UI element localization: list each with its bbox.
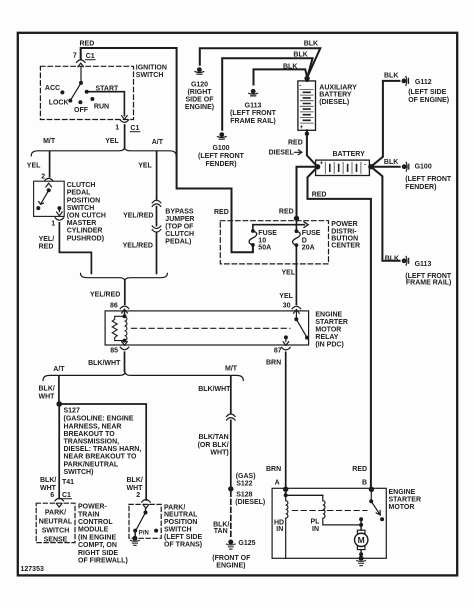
svg-text:RED: RED	[288, 139, 303, 146]
svg-text:RED: RED	[312, 191, 327, 198]
ground G100 right	[402, 164, 407, 169]
svg-text:BLK/WHT: BLK/WHT	[198, 386, 231, 393]
svg-text:YEL: YEL	[279, 293, 293, 300]
wire bypass jumper	[156, 207, 158, 226]
svg-text:ENGINE): ENGINE)	[185, 104, 214, 111]
svg-text:M/T: M/T	[43, 138, 56, 145]
wire RED ignition to fuse 10	[81, 48, 253, 252]
engine starter motor box	[272, 488, 386, 558]
wire PDC bus with continuation arrow	[253, 218, 305, 230]
wire RED battery to starter B	[308, 167, 371, 490]
svg-text:OF ENGINE): OF ENGINE)	[408, 97, 449, 104]
svg-text:SWITCH: SWITCH	[67, 205, 95, 212]
starter motor M	[359, 517, 363, 527]
svg-text:A/T: A/T	[152, 139, 164, 146]
svg-text:+: +	[300, 125, 304, 131]
splice S127	[56, 401, 62, 407]
wire BLK/TAN diesel dashed to G125	[230, 492, 232, 540]
svg-text:WHT: WHT	[39, 393, 56, 400]
svg-text:FRAME RAIL): FRAME RAIL)	[230, 118, 276, 125]
connector PCM C1 pin 6	[55, 498, 64, 507]
clutch switch pin 1 exit	[55, 208, 64, 220]
svg-text:TAN: TAN	[214, 528, 228, 535]
wire BLK/WHT S127 to park/neutral switch	[59, 404, 146, 500]
svg-text:RELAY: RELAY	[315, 334, 338, 341]
svg-text:IGNITION: IGNITION	[136, 64, 167, 71]
svg-text:M/T: M/T	[225, 366, 238, 373]
power distribution center dashed box	[220, 221, 328, 264]
wire BLK battery negative to G100	[371, 166, 400, 168]
svg-text:(IN PDC): (IN PDC)	[315, 342, 343, 349]
wire coil feed	[286, 494, 323, 496]
connector inline (M/T branch)	[227, 414, 236, 420]
svg-text:(DIESEL): (DIESEL)	[235, 499, 265, 506]
svg-text:1: 1	[51, 221, 55, 228]
svg-text:(FRONT OF: (FRONT OF	[212, 555, 251, 562]
relay mechanical dashed link	[132, 327, 291, 329]
svg-text:YEL: YEL	[282, 269, 296, 276]
svg-text:PARK/: PARK/	[164, 504, 185, 511]
svg-text:P/N: P/N	[139, 530, 149, 536]
svg-text:OF FIREWALL): OF FIREWALL)	[78, 558, 128, 565]
svg-text:1: 1	[115, 125, 119, 132]
svg-text:G100: G100	[212, 145, 229, 152]
svg-text:SWITCH: SWITCH	[136, 72, 164, 79]
node split M/T A/T (brace)	[31, 147, 176, 156]
svg-text:RED: RED	[80, 40, 95, 47]
wire YEL/RED to relay 86	[124, 281, 126, 304]
svg-text:ENGINE: ENGINE	[315, 312, 342, 319]
svg-text:IN: IN	[276, 526, 283, 533]
connector park/neutral switch pin 2	[142, 500, 151, 509]
svg-text:BLK/: BLK/	[127, 477, 143, 484]
svg-text:BLK: BLK	[304, 40, 318, 47]
ground (park/neutral switch)	[132, 536, 137, 541]
svg-text:(GASOLINE: ENGINE: (GASOLINE: ENGINE	[64, 416, 134, 423]
svg-text:D: D	[302, 237, 307, 244]
svg-text:(LEFT SIDE: (LEFT SIDE	[164, 534, 202, 541]
svg-text:(LEFT FRONT: (LEFT FRONT	[405, 176, 452, 183]
wire YEL M/T branch	[49, 152, 51, 177]
svg-text:RIGHT SIDE: RIGHT SIDE	[78, 550, 118, 557]
svg-text:(ON CUTCH: (ON CUTCH	[67, 213, 106, 220]
svg-text:CLUTCH: CLUTCH	[67, 182, 96, 189]
svg-text:30: 30	[283, 303, 291, 310]
svg-text:CONTROL: CONTROL	[78, 519, 113, 526]
svg-text:BREAKOUT TO: BREAKOUT TO	[64, 431, 116, 438]
wire YEL/RED clutch to merge	[59, 223, 91, 274]
svg-text:BATTERY: BATTERY	[319, 92, 352, 99]
svg-text:WHT: WHT	[127, 485, 144, 492]
svg-text:RUN: RUN	[94, 103, 109, 110]
svg-text:BLK: BLK	[293, 52, 307, 59]
svg-text:RED: RED	[39, 243, 54, 250]
node battery negative terminal	[368, 164, 373, 169]
PCM dashed box (park/neutral switch sense)	[36, 503, 75, 542]
node aux battery top junction	[304, 76, 309, 81]
svg-text:DIESEL: DIESEL	[269, 150, 295, 157]
svg-text:BLK/: BLK/	[40, 477, 56, 484]
wire P/N contact to ground	[134, 531, 136, 539]
svg-text:G100: G100	[415, 164, 432, 171]
node starter terminal A	[283, 487, 288, 492]
battery AUX (diesel)	[306, 78, 308, 81]
node merge brace (M/T + A/T)	[81, 273, 168, 281]
svg-text:AUXILIARY: AUXILIARY	[319, 84, 357, 91]
svg-text:NEAR BREAKOUT TO: NEAR BREAKOUT TO	[64, 454, 138, 461]
svg-text:YEL/RED: YEL/RED	[123, 242, 153, 249]
svg-text:MASTER: MASTER	[67, 220, 97, 227]
svg-text:SWITCH): SWITCH)	[64, 469, 94, 476]
connector bypass jumper lower	[152, 226, 161, 232]
svg-text:DISTRI-: DISTRI-	[331, 228, 357, 235]
svg-text:86: 86	[110, 303, 118, 310]
starter switch contacts	[369, 487, 374, 492]
ground G112	[402, 79, 407, 84]
svg-text:(IN ENGINE: (IN ENGINE	[78, 534, 116, 541]
svg-text:CENTER: CENTER	[331, 243, 360, 250]
svg-text:BLK: BLK	[385, 255, 399, 262]
wire BLK/TAN to splice	[230, 420, 232, 487]
svg-text:NEUTRAL: NEUTRAL	[39, 519, 73, 526]
wire BLK top rail to aux battery	[200, 48, 320, 77]
clutch switch contacts	[39, 190, 49, 204]
svg-text:7: 7	[73, 53, 77, 60]
svg-text:SENSE: SENSE	[44, 537, 68, 544]
svg-text:2: 2	[136, 492, 140, 499]
svg-text:S122: S122	[236, 481, 252, 488]
svg-text:TRAIN: TRAIN	[78, 511, 99, 518]
svg-text:(LEFT FRONT: (LEFT FRONT	[198, 153, 245, 160]
fuse D 20A	[295, 229, 299, 247]
svg-text:POWER: POWER	[331, 221, 357, 228]
ignition switch S1 dashed box	[40, 66, 133, 119]
ground (starter motor case)	[357, 561, 366, 566]
ground G113 left	[251, 89, 256, 94]
svg-text:POWER-: POWER-	[78, 504, 107, 511]
svg-text:PARK/NEUTRAL: PARK/NEUTRAL	[64, 461, 119, 468]
svg-text:STARTER: STARTER	[315, 319, 348, 326]
wire BRN relay 87 to starter A	[285, 352, 287, 495]
wire YEL fuse D to relay 30	[295, 246, 297, 305]
wire RED aux battery to battery positive	[307, 130, 318, 167]
svg-text:87: 87	[274, 348, 282, 355]
svg-text:(GAS): (GAS)	[236, 473, 256, 480]
svg-text:S128: S128	[236, 491, 252, 498]
svg-text:RED: RED	[214, 209, 229, 216]
wire BLK middle rail to aux battery	[222, 58, 312, 130]
svg-text:PEDAL: PEDAL	[67, 190, 91, 197]
svg-text:LOCK: LOCK	[49, 99, 69, 106]
svg-text:PEDAL): PEDAL)	[165, 238, 191, 245]
ground G125	[228, 540, 233, 545]
starter solenoid dashed link	[292, 510, 367, 512]
connector C1 pin 1 (ignition output)	[120, 116, 129, 123]
svg-text:(LEFT FRONT: (LEFT FRONT	[230, 110, 277, 117]
svg-text:BATTERY: BATTERY	[333, 151, 366, 158]
svg-text:BLK/TAN: BLK/TAN	[198, 434, 228, 441]
svg-text:STARTER: STARTER	[389, 496, 422, 503]
svg-text:MODULE: MODULE	[78, 527, 109, 534]
svg-text:BLK: BLK	[384, 73, 398, 80]
svg-text:BRN: BRN	[266, 360, 281, 367]
svg-text:10: 10	[258, 237, 266, 244]
svg-text:POSITION: POSITION	[164, 519, 197, 526]
svg-text:JUMPER: JUMPER	[165, 216, 194, 223]
svg-text:T41: T41	[62, 479, 74, 486]
svg-text:FRAME RAIL): FRAME RAIL)	[406, 280, 452, 287]
node HD/PL coil junction	[284, 493, 288, 497]
svg-text:FENDER): FENDER)	[405, 184, 436, 191]
svg-text:YEL/: YEL/	[39, 236, 55, 243]
svg-text:SWITCH: SWITCH	[164, 527, 192, 534]
wire BLK battery negative to G112	[371, 81, 400, 167]
svg-text:COMPT, ON: COMPT, ON	[78, 542, 117, 549]
wire BLK/WHT A/T branch to S127	[58, 376, 60, 401]
svg-text:A/T: A/T	[53, 366, 65, 373]
svg-text:2: 2	[41, 174, 45, 181]
svg-text:G120: G120	[191, 81, 208, 88]
svg-text:YEL: YEL	[27, 163, 41, 170]
svg-text:DIESEL: TRANS HARN,: DIESEL: TRANS HARN,	[64, 446, 142, 453]
svg-text:SWITCH: SWITCH	[42, 528, 70, 535]
svg-text:A: A	[275, 480, 280, 487]
wire YEL/RED to merge	[156, 233, 158, 273]
svg-text:PUSHROD): PUSHROD)	[67, 235, 104, 242]
svg-text:RED: RED	[279, 209, 294, 216]
connector clutch switch pin 2	[44, 178, 53, 187]
node battery positive terminal	[315, 164, 320, 169]
node PDC feed junction	[294, 216, 299, 221]
relay switch contacts	[295, 311, 297, 319]
svg-text:MOTOR: MOTOR	[315, 327, 341, 334]
svg-text:C1: C1	[62, 492, 71, 499]
splice S122 / S128	[228, 486, 233, 491]
svg-text:G113: G113	[415, 261, 432, 268]
svg-text:HARNESS, NEAR: HARNESS, NEAR	[64, 423, 122, 430]
park/neutral switch contacts	[136, 509, 145, 530]
svg-text:PARK/: PARK/	[45, 510, 66, 517]
svg-text:BYPASS: BYPASS	[165, 208, 194, 215]
svg-text:B: B	[362, 480, 367, 487]
svg-text:G112: G112	[415, 79, 432, 86]
wire BLK/WHT S127 to PCM	[58, 404, 60, 499]
svg-text:YEL/RED: YEL/RED	[123, 213, 153, 220]
node aux battery bottom	[305, 132, 309, 136]
park/neutral position switch dashed box	[129, 504, 161, 538]
svg-text:BLK: BLK	[384, 159, 398, 166]
svg-text:OFF: OFF	[74, 107, 89, 114]
svg-text:ENGINE: ENGINE	[389, 489, 416, 496]
wire BLK lower rail to aux battery	[254, 69, 308, 84]
svg-text:BUTION: BUTION	[331, 236, 358, 243]
svg-text:ENGINE): ENGINE)	[216, 562, 245, 569]
svg-text:MOTOR: MOTOR	[389, 504, 415, 511]
wire RED battery to PDC	[297, 167, 318, 219]
PL IN coil	[323, 495, 361, 525]
svg-text:(DIESEL): (DIESEL)	[319, 99, 349, 106]
svg-text:BLK/: BLK/	[39, 386, 55, 393]
node split A/T M/T (lower brace)	[43, 372, 243, 381]
HD IN coil	[286, 495, 288, 558]
wire START contact to C1 pin 1	[87, 92, 125, 116]
svg-text:C1: C1	[86, 53, 95, 60]
engine starter motor relay box	[105, 311, 309, 345]
svg-text:20A: 20A	[302, 245, 315, 252]
svg-text:127353: 127353	[21, 566, 44, 573]
svg-text:6: 6	[50, 492, 54, 499]
relay coil with parallel resistor	[124, 310, 126, 317]
svg-text:+: +	[320, 161, 324, 167]
ground G113 right	[402, 258, 407, 263]
svg-text:CYLINDER: CYLINDER	[67, 228, 103, 235]
svg-text:M: M	[358, 535, 365, 545]
svg-text:TRANSMISSION,: TRANSMISSION,	[64, 439, 120, 446]
svg-text:IN: IN	[312, 526, 319, 533]
connector relay pin 86	[120, 306, 129, 313]
svg-text:-: -	[364, 162, 366, 168]
svg-text:BLK: BLK	[283, 63, 297, 70]
connector relay pin 87	[282, 337, 291, 350]
wire relay 85 to lower split	[124, 352, 126, 371]
fuse 10 50A	[251, 229, 255, 247]
wire BLK/WHT M/T branch	[230, 376, 232, 413]
wire YEL down to M/T A/T split	[124, 125, 126, 148]
svg-text:C1: C1	[130, 125, 139, 132]
svg-text:WHT): WHT)	[210, 449, 228, 456]
svg-text:RED: RED	[352, 466, 367, 473]
connector relay pin 85	[120, 341, 129, 350]
svg-text:PL: PL	[311, 519, 321, 526]
connector relay pin 30	[292, 306, 301, 313]
svg-text:YEL/RED: YEL/RED	[90, 292, 120, 299]
ground G100 left	[219, 132, 224, 137]
svg-text:OF TRANS): OF TRANS)	[164, 541, 202, 548]
svg-text:S127: S127	[64, 408, 80, 415]
ground G120	[197, 67, 202, 72]
svg-text:G125: G125	[238, 540, 255, 547]
svg-text:FENDER): FENDER)	[205, 161, 236, 168]
svg-text:(RIGHT: (RIGHT	[187, 89, 212, 96]
svg-text:POSITION: POSITION	[67, 197, 100, 204]
svg-text:SIDE OF: SIDE OF	[185, 97, 214, 104]
svg-text:50A: 50A	[258, 245, 271, 252]
svg-text:-: -	[299, 84, 301, 90]
svg-text:FUSE: FUSE	[258, 230, 277, 237]
wire BLK battery negative to G113	[371, 167, 400, 261]
svg-text:(OR BLK/: (OR BLK/	[198, 442, 229, 449]
svg-text:ACC: ACC	[45, 85, 60, 92]
svg-text:YEL: YEL	[138, 163, 152, 170]
svg-text:CLUTCH: CLUTCH	[165, 231, 194, 238]
svg-text:BRN: BRN	[266, 466, 281, 473]
clutch pedal position switch box	[34, 181, 65, 216]
svg-text:BLK/WHT: BLK/WHT	[88, 360, 121, 367]
svg-text:G113: G113	[245, 102, 262, 109]
connector bypass jumper upper	[152, 200, 161, 206]
svg-text:(LEFT SIDE: (LEFT SIDE	[408, 89, 446, 96]
svg-text:85: 85	[110, 348, 118, 355]
svg-text:YEL: YEL	[105, 138, 119, 145]
svg-text:NEUTRAL: NEUTRAL	[164, 512, 198, 519]
svg-text:WHT: WHT	[40, 485, 57, 492]
svg-text:FUSE: FUSE	[302, 230, 321, 237]
connector C1 pin 7 (ignition)	[76, 60, 85, 67]
wire YEL A/T branch	[156, 152, 158, 200]
svg-text:(TOP OF: (TOP OF	[165, 223, 194, 230]
ignition switch contacts and lever	[70, 67, 81, 101]
